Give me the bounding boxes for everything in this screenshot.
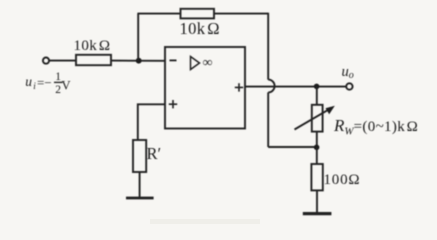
wire RW to node C [316,132,318,148]
svg-text:=−: =− [37,75,52,90]
wire feedback to node C [268,146,316,148]
svg-text:u: u [25,74,32,89]
wire hop bottom down [267,92,269,147]
op-amp noninverting input plus [169,100,177,108]
wire Rf right to corner [214,13,268,15]
ground right bar [303,212,332,215]
wire node B down to RW [316,86,318,104]
wire top left to Rf [137,13,180,15]
node C junction dot [314,145,320,151]
wire down from corner to hop [267,13,269,80]
svg-text:100Ω: 100Ω [324,172,361,188]
wire R1 to node A [111,60,165,62]
svg-text:10k Ω: 10k Ω [74,38,111,54]
wire hop over output wire [268,80,274,93]
wire R' to ground [139,172,141,198]
node B output junction dot [314,84,320,90]
wire op-amp output to terminal [245,86,346,88]
svg-text:1: 1 [55,71,61,83]
wire node A up to feedback [137,14,139,61]
resistor R1 box [76,55,111,65]
wire input to R1 [49,60,76,62]
op-amp triangle symbol [191,57,200,70]
op-amp U1 box [165,47,245,129]
svg-text:10k Ω: 10k Ω [180,19,220,38]
svg-text:∞: ∞ [203,55,213,70]
ground left bar [126,197,154,200]
potentiometer RW arrow [295,108,332,129]
node A junction dot [136,58,142,64]
resistor R2 box [311,164,322,190]
wire noninverting input to R' [138,104,165,140]
op-amp output plus [235,83,243,91]
svg-text:2: 2 [55,84,61,96]
op-amp inverting input minus [170,59,177,61]
input terminal circle [43,58,49,64]
output terminal circle [346,83,352,89]
wire R2 to ground [316,190,318,213]
wire node C to R2 [316,147,318,164]
potentiometer RW box [312,105,323,132]
svg-text:V: V [62,78,71,92]
scan smudge bottom [150,219,260,224]
resistor Rf box [181,9,215,19]
resistor R' box [133,140,146,172]
svg-text:R′: R′ [147,144,162,163]
